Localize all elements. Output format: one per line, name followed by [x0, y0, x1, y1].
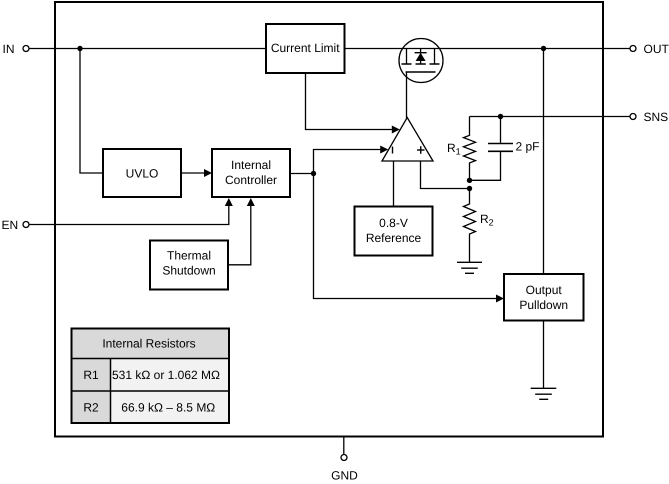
wire OUT vertical to pulldown: [543, 49, 545, 275]
node controller output junction: [311, 171, 316, 176]
block UVLO: [103, 149, 181, 197]
IN terminal: [23, 46, 29, 52]
svg-text:EN: EN: [2, 218, 19, 232]
wire gate to error amp output: [406, 72, 408, 119]
svg-text:IN: IN: [3, 42, 15, 56]
svg-text:2 pF: 2 pF: [516, 140, 540, 154]
wire output rail: [345, 48, 604, 50]
svg-text:Output: Output: [526, 283, 563, 297]
svg-text:Internal Resistors: Internal Resistors: [102, 337, 195, 351]
svg-text:Internal: Internal: [231, 158, 271, 172]
ground under R2: [457, 262, 482, 273]
wire UVLO to controller: [181, 169, 212, 177]
block Internal Controller U2: [212, 149, 290, 197]
svg-text:Reference: Reference: [366, 231, 422, 245]
SNS terminal: [603, 114, 636, 120]
block 0.8-V Reference: [355, 207, 433, 256]
svg-text:66.9 kΩ – 8.5 MΩ: 66.9 kΩ – 8.5 MΩ: [121, 400, 215, 414]
resistor R1: [464, 117, 476, 181]
node feedback junction upper: [467, 178, 472, 183]
device boundary box: [55, 2, 603, 437]
GND terminal: [341, 455, 347, 461]
svg-text:OUT: OUT: [644, 42, 669, 56]
svg-text:Controller: Controller: [225, 173, 277, 187]
node feedback junction lower: [467, 186, 472, 191]
svg-text:Shutdown: Shutdown: [162, 264, 215, 278]
wire current limit to error amp upper input: [306, 73, 400, 134]
svg-text:R2: R2: [83, 400, 99, 414]
block Current Limit: [266, 24, 345, 73]
wire IN rail: [29, 48, 266, 50]
resistor R2: [464, 189, 476, 263]
wire error amp to reference: [393, 161, 395, 207]
wire IN to UVLO: [80, 49, 103, 174]
wire feedback to plus input: [421, 161, 470, 189]
capacitor C1 2 pF: [470, 117, 514, 181]
wire SNS: [470, 116, 604, 118]
svg-text:0.8-V: 0.8-V: [379, 216, 408, 230]
node SNS capacitor junction: [498, 114, 503, 119]
svg-text:Current Limit: Current Limit: [271, 41, 340, 55]
table internal resistors: [72, 329, 230, 424]
block Thermal Shutdown: [150, 241, 228, 290]
block Output Pulldown: [504, 274, 584, 321]
svg-text:Thermal: Thermal: [167, 249, 211, 263]
svg-text:R1: R1: [83, 368, 99, 382]
wire controller to error amp inverting input: [314, 146, 389, 174]
svg-text:GND: GND: [331, 469, 358, 483]
wire EN to controller: [29, 198, 233, 225]
svg-text:UVLO: UVLO: [126, 166, 159, 180]
wire thermal shutdown to controller: [228, 198, 255, 265]
wire pulldown to ground: [543, 321, 545, 389]
OUT terminal: [603, 46, 636, 52]
svg-text:531 kΩ or 1.062 MΩ: 531 kΩ or 1.062 MΩ: [112, 368, 220, 382]
wire controller to output pulldown: [314, 174, 505, 303]
svg-text:SNS: SNS: [644, 110, 669, 124]
node IN junction: [77, 46, 82, 51]
node OUT junction: [541, 46, 546, 51]
transistor Q1 pass FET: [399, 39, 443, 83]
ground under output pulldown: [531, 388, 557, 399]
svg-text:Pulldown: Pulldown: [519, 298, 568, 312]
op-amp error amplifier U1: [382, 118, 433, 162]
wire GND stub: [343, 437, 345, 455]
EN terminal: [23, 222, 29, 228]
wire controller output: [290, 173, 314, 175]
